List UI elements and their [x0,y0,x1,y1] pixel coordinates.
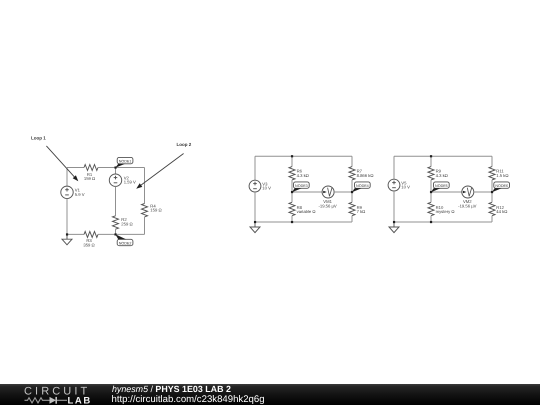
wire bottom (middle circuit) [255,221,352,223]
wire middle branch upper (node to V2) [115,168,117,175]
wire top (right circuit) [394,155,492,157]
svg-text:44 kΩ: 44 kΩ [496,209,507,214]
node NODE5 label box [431,182,449,192]
resistor R6 [289,167,295,180]
ground (right circuit) [389,222,399,233]
resistor R4 [142,204,148,217]
svg-text:1.5 kΩ: 1.5 kΩ [496,173,508,178]
svg-text:NODE4: NODE4 [356,184,369,188]
wire R2 to bottom node [115,229,117,234]
node NODE3 label box [292,182,309,192]
svg-text:Loop 1: Loop 1 [31,135,46,140]
wire V2 to R2 [115,186,117,215]
wire left lower (V5 to corner) [393,191,395,222]
svg-text:NODE3: NODE3 [295,184,308,188]
junction NODE6 [491,191,493,193]
wire left upper (corner to V1) [66,168,68,187]
resistor R9 (middle circuit bottom right) [349,202,355,215]
voltage source V5 [388,179,400,191]
svg-text:NODE6: NODE6 [495,184,508,188]
svg-text:Loop 2: Loop 2 [177,142,192,147]
resistor R12 [489,202,495,215]
junction ground corner (right circuit) [393,221,395,223]
svg-text:8.866 kΩ: 8.866 kΩ [357,173,374,178]
svg-text:-19.56 µV: -19.56 µV [458,204,476,209]
FOOTER BAR [0,384,540,405]
resistor R2 [113,216,119,229]
wire left upper (corner to V5) [393,156,395,179]
resistor R1 [84,165,98,171]
junction ground corner [66,233,68,235]
junction node top (NODE1 junction) [114,166,116,168]
resistor R11 [489,167,495,180]
wire bottom (right circuit) [394,221,492,223]
wire bottom left (corner to R3) [67,233,84,235]
node NODE2 label box [115,234,133,246]
junction bottom mid branch (right circuit) [430,221,432,223]
wire R7 to NODE4 junction [351,180,353,192]
resistor R3 [84,231,98,237]
svg-text:4.3 kΩ: 4.3 kΩ [436,173,448,178]
ground (middle circuit) [250,222,260,233]
svg-text:159 Ω: 159 Ω [150,208,161,213]
junction NODE3 [291,191,293,193]
svg-text:4.3 kΩ: 4.3 kΩ [297,173,309,178]
wire top (middle circuit) [255,155,352,157]
wire top right of R1 [98,167,145,169]
junction bottom mid branch [291,221,293,223]
svg-text:NODE5: NODE5 [435,184,448,188]
svg-text:NODE2: NODE2 [119,241,132,245]
resistor R10 [428,202,434,215]
wire mid branch top lead (right circuit) [430,156,432,166]
junction NODE5 [430,191,432,193]
junction NODE4 [351,191,353,193]
wire R6 to NODE3 junction [291,180,293,192]
svg-text:10 V: 10 V [262,186,271,191]
RIGHT CIRCUIT [388,155,509,232]
ground [62,234,72,244]
resistor R9 (right circuit top left) [428,167,434,180]
svg-text:-19.56 µV: -19.56 µV [318,204,336,209]
wire left lower (V3 to corner) [254,192,256,222]
wire right upper (corner to R4) [144,168,146,204]
resistor R7 [349,167,355,180]
wire NODE4 junction to R9 [351,192,353,202]
resistor R8 [289,202,295,215]
wire bottom right of R3 [98,233,145,235]
wire right branch top lead [351,156,353,166]
voltage source V1 [61,186,73,198]
LEFT CIRCUIT [31,135,192,247]
svg-text:359 Ω: 359 Ω [83,242,94,247]
wire NODE3 junction to R8 [291,192,293,202]
wire left upper (corner to V3) [254,156,256,180]
MIDDLE CIRCUIT [249,155,373,232]
wire R10 to bottom [430,216,432,222]
node NODE4 label box [352,182,370,192]
svg-text:10 V: 10 V [401,185,410,190]
svg-text:LAB: LAB [68,395,92,405]
wire top left (corner to R1) [67,167,84,169]
wire right branch top lead (right circuit) [491,156,493,166]
wire mid branch top lead [291,156,293,166]
svg-text:1.59 V: 1.59 V [124,180,136,185]
loop 1 arrow [46,146,78,181]
wire VM2 to right branch [474,191,492,193]
svg-text:5.9 V: 5.9 V [75,192,85,197]
wire NODE3 to VM1 [292,191,322,193]
junction ground corner (middle circuit) [254,221,256,223]
junction top mid branch [291,155,293,157]
wire VM1 to right branch [334,191,352,193]
voltage source V2 [109,174,121,186]
junction top mid branch (right circuit) [430,155,432,157]
node NODE1 label box [115,157,133,167]
wire R9 to NODE5 junction [430,180,432,192]
wire left lower (V1 to corner) [66,199,68,235]
svg-text:159 Ω: 159 Ω [84,176,95,181]
CircuitLab logo resistor squiggle [25,398,46,403]
voltmeter VM2 [462,186,474,198]
svg-text:hynesm5 / PHYS 1E03 LAB 2: hynesm5 / PHYS 1E03 LAB 2 [112,384,231,394]
node NODE6 label box [492,182,510,192]
svg-text:http://circuitlab.com/c23k849h: http://circuitlab.com/c23k849hk2q6g [112,394,265,405]
wire NODE5 junction to R10 [430,192,432,202]
svg-text:variable Ω: variable Ω [297,209,316,214]
svg-text:7 kΩ: 7 kΩ [357,209,366,214]
wire NODE5 to VM2 [431,191,462,193]
svg-text:mystery Ω: mystery Ω [436,209,455,214]
svg-text:259 Ω: 259 Ω [121,222,132,227]
wire right lower (R4 to corner) [144,217,146,234]
wire R11 to NODE6 junction [491,180,493,192]
svg-text:NODE1: NODE1 [119,159,132,163]
wire R8 to bottom [291,216,293,222]
wire NODE6 junction to R12 [491,192,493,202]
wire R9 to bottom [351,216,353,222]
voltage source V3 [249,180,261,192]
voltmeter VM1 [322,186,334,198]
junction node bottom (NODE2 junction) [114,233,116,235]
CircuitLab logo diode [46,397,68,404]
loop 2 arrow [136,154,183,189]
wire R12 to bottom [491,216,493,222]
